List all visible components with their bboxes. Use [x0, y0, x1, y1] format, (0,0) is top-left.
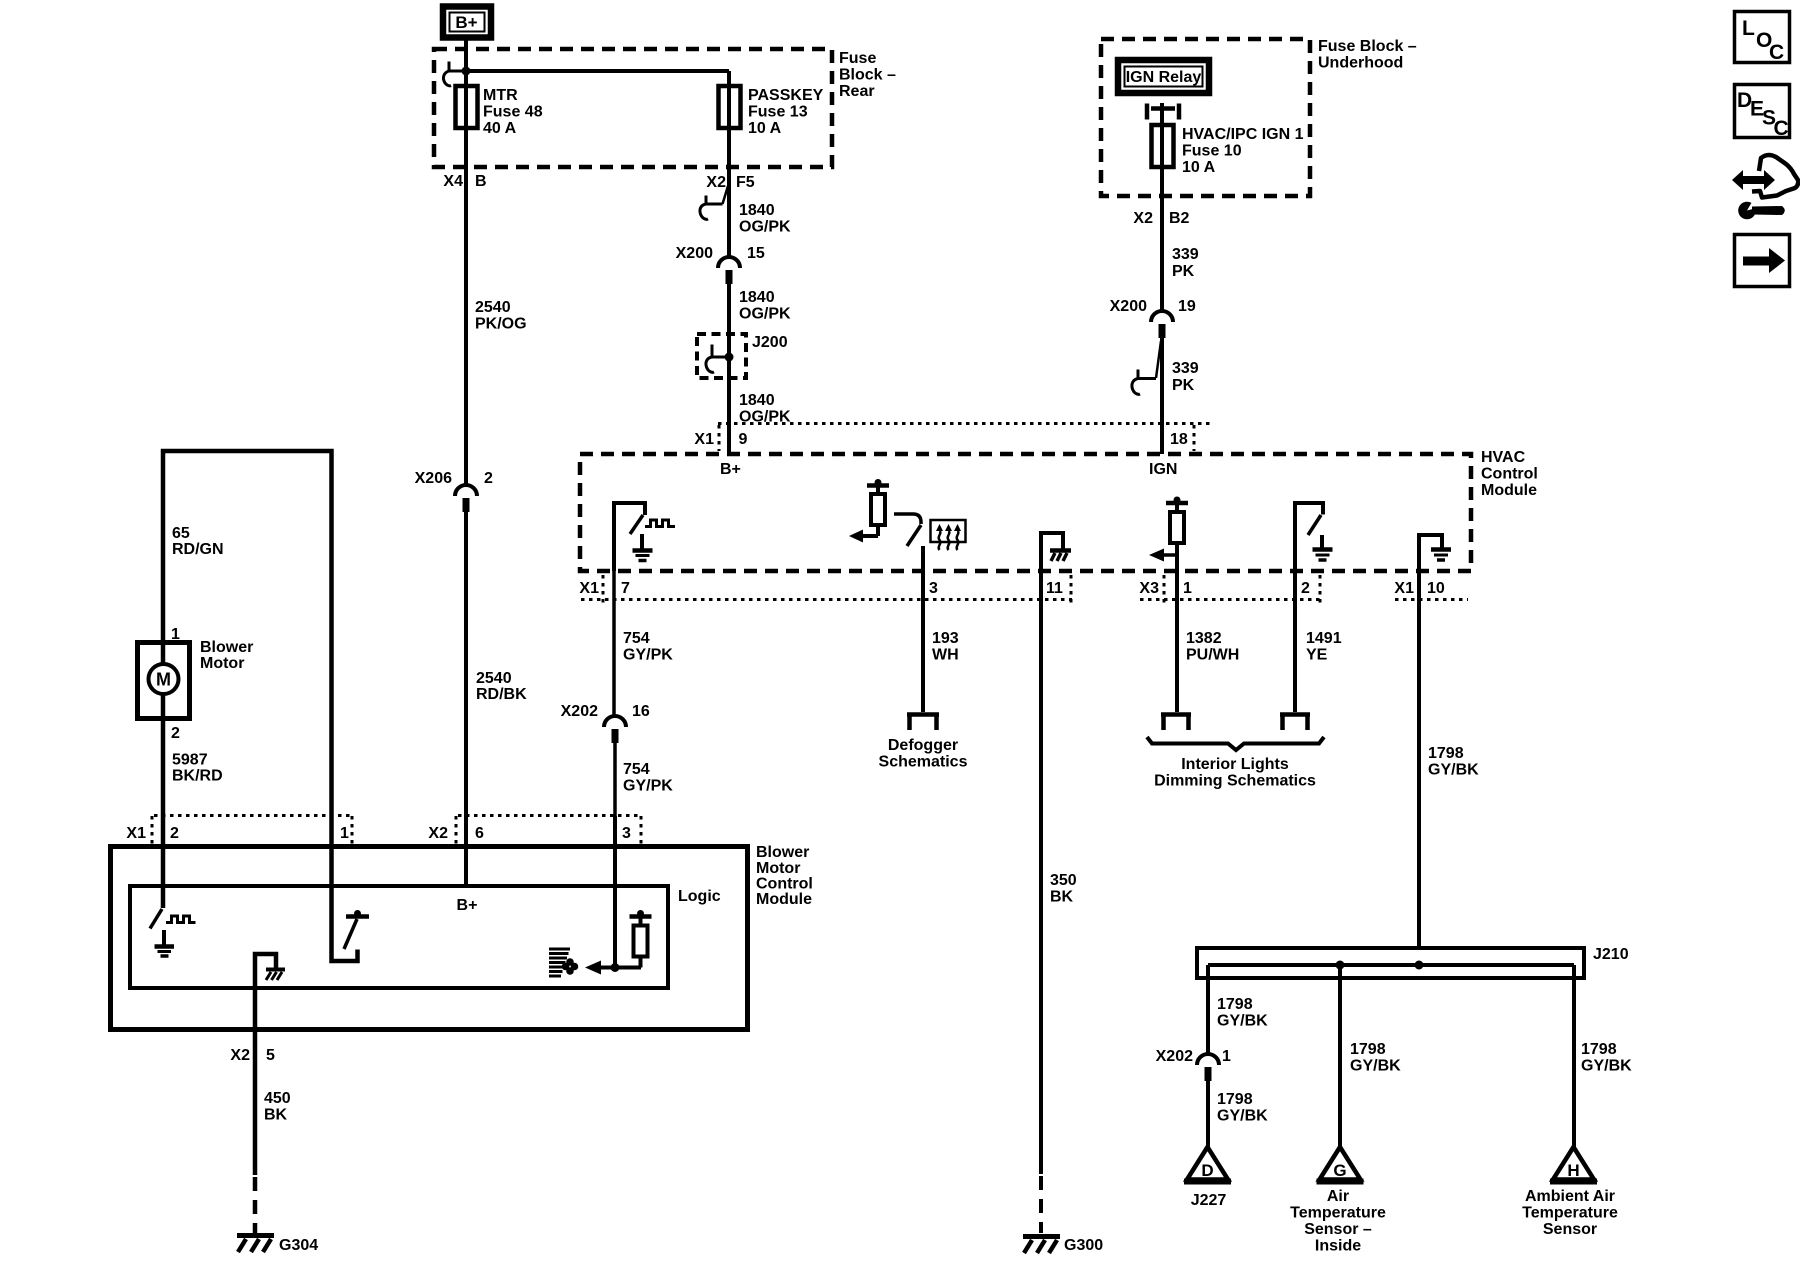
svg-text:L: L: [1742, 17, 1755, 40]
svg-text:RD/GN: RD/GN: [172, 541, 224, 558]
svg-text:754: 754: [623, 761, 650, 778]
svg-text:450: 450: [264, 1090, 291, 1107]
svg-text:1840: 1840: [739, 202, 775, 219]
svg-text:10 A: 10 A: [748, 120, 782, 137]
svg-text:19: 19: [1178, 298, 1196, 315]
svg-text:1: 1: [1183, 580, 1192, 597]
svg-text:OG/PK: OG/PK: [739, 306, 791, 323]
svg-text:5: 5: [266, 1047, 275, 1064]
svg-text:HVAC/IPC IGN 1: HVAC/IPC IGN 1: [1182, 126, 1304, 143]
svg-text:PASSKEY: PASSKEY: [748, 87, 824, 104]
svg-text:Module: Module: [1481, 482, 1537, 499]
svg-text:Fuse Block –: Fuse Block –: [1318, 38, 1417, 55]
svg-text:B+: B+: [455, 13, 477, 32]
svg-text:HVAC: HVAC: [1481, 449, 1526, 466]
svg-text:2: 2: [1301, 580, 1310, 597]
svg-text:X206: X206: [415, 470, 452, 487]
svg-text:Module: Module: [756, 891, 812, 908]
svg-text:10 A: 10 A: [1182, 159, 1216, 176]
svg-text:Defogger: Defogger: [888, 737, 958, 754]
svg-text:40 A: 40 A: [483, 120, 517, 137]
svg-text:J200: J200: [752, 334, 788, 351]
svg-text:X2: X2: [1133, 210, 1153, 227]
svg-text:339: 339: [1172, 246, 1199, 263]
svg-text:1798: 1798: [1428, 745, 1464, 762]
svg-text:1840: 1840: [739, 392, 775, 409]
svg-text:1: 1: [1222, 1048, 1231, 1065]
svg-text:B: B: [475, 173, 487, 190]
svg-text:GY/BK: GY/BK: [1350, 1058, 1401, 1075]
svg-text:X4: X4: [443, 173, 463, 190]
svg-text:Motor: Motor: [200, 655, 244, 672]
svg-text:X2: X2: [706, 174, 726, 191]
svg-text:GY/BK: GY/BK: [1428, 762, 1479, 779]
svg-text:Fuse 10: Fuse 10: [1182, 143, 1242, 160]
svg-text:X200: X200: [1110, 298, 1147, 315]
svg-text:9: 9: [739, 431, 748, 448]
svg-text:Temperature: Temperature: [1522, 1205, 1618, 1222]
svg-text:RD/BK: RD/BK: [476, 686, 527, 703]
svg-text:X2: X2: [428, 825, 448, 842]
svg-text:Sensor –: Sensor –: [1304, 1221, 1372, 1238]
svg-text:PK: PK: [1172, 263, 1195, 280]
svg-text:16: 16: [632, 703, 650, 720]
svg-text:IGN Relay: IGN Relay: [1126, 69, 1202, 86]
svg-text:6: 6: [475, 825, 484, 842]
svg-text:Schematics: Schematics: [879, 754, 968, 771]
svg-text:PK/OG: PK/OG: [475, 316, 527, 333]
svg-text:Ambient Air: Ambient Air: [1525, 1188, 1615, 1205]
svg-text:X3: X3: [1139, 580, 1159, 597]
svg-text:10: 10: [1427, 580, 1445, 597]
svg-text:Block –: Block –: [839, 67, 896, 84]
svg-text:Blower: Blower: [200, 639, 253, 656]
svg-text:C: C: [1774, 117, 1789, 140]
svg-text:GY/BK: GY/BK: [1217, 1013, 1268, 1030]
svg-text:65: 65: [172, 525, 190, 542]
svg-text:MTR: MTR: [483, 87, 518, 104]
svg-text:Fuse 48: Fuse 48: [483, 104, 543, 121]
svg-text:M: M: [156, 670, 171, 690]
svg-text:C: C: [1769, 41, 1784, 64]
svg-text:Fuse: Fuse: [839, 50, 876, 67]
svg-text:18: 18: [1170, 431, 1188, 448]
svg-text:Temperature: Temperature: [1290, 1205, 1386, 1222]
svg-text:G304: G304: [279, 1237, 318, 1254]
svg-text:F5: F5: [736, 174, 755, 191]
svg-text:OG/PK: OG/PK: [739, 409, 791, 426]
svg-text:X1: X1: [1394, 580, 1414, 597]
svg-text:2: 2: [171, 725, 180, 742]
svg-text:PU/WH: PU/WH: [1186, 647, 1239, 664]
svg-text:X1: X1: [126, 825, 146, 842]
svg-text:B+: B+: [457, 897, 478, 914]
svg-text:BK: BK: [1050, 889, 1074, 906]
svg-text:OG/PK: OG/PK: [739, 219, 791, 236]
svg-text:2: 2: [170, 825, 179, 842]
svg-text:2540: 2540: [476, 670, 512, 687]
svg-text:X1: X1: [579, 580, 599, 597]
svg-text:Sensor: Sensor: [1543, 1221, 1597, 1238]
svg-text:J227: J227: [1191, 1192, 1227, 1209]
svg-text:X1: X1: [694, 431, 714, 448]
svg-text:11: 11: [1046, 580, 1063, 597]
svg-text:B2: B2: [1169, 210, 1190, 227]
svg-text:GY/PK: GY/PK: [623, 647, 673, 664]
svg-text:Interior Lights: Interior Lights: [1181, 756, 1289, 773]
svg-text:15: 15: [747, 245, 765, 262]
svg-text:WH: WH: [932, 647, 959, 664]
svg-text:X202: X202: [561, 703, 598, 720]
svg-text:1798: 1798: [1581, 1041, 1617, 1058]
svg-text:Control: Control: [1481, 466, 1538, 483]
svg-text:D: D: [1201, 1161, 1213, 1180]
svg-text:1491: 1491: [1306, 630, 1342, 647]
svg-text:GY/BK: GY/BK: [1217, 1108, 1268, 1125]
svg-text:Underhood: Underhood: [1318, 55, 1403, 72]
svg-text:2: 2: [484, 470, 493, 487]
svg-text:Fuse 13: Fuse 13: [748, 104, 808, 121]
svg-text:1: 1: [340, 825, 349, 842]
svg-text:2540: 2540: [475, 299, 511, 316]
svg-text:1840: 1840: [739, 289, 775, 306]
svg-text:Inside: Inside: [1315, 1238, 1361, 1255]
svg-text:Air: Air: [1327, 1188, 1349, 1205]
svg-text:350: 350: [1050, 872, 1077, 889]
svg-text:Control: Control: [756, 876, 813, 893]
svg-text:BK: BK: [264, 1107, 288, 1124]
svg-text:H: H: [1567, 1161, 1579, 1180]
svg-text:G300: G300: [1064, 1237, 1103, 1254]
svg-text:5987: 5987: [172, 752, 208, 769]
svg-text:X200: X200: [676, 245, 713, 262]
svg-text:IGN: IGN: [1149, 461, 1177, 478]
svg-text:Dimming Schematics: Dimming Schematics: [1154, 773, 1316, 790]
svg-text:1798: 1798: [1217, 996, 1253, 1013]
svg-text:193: 193: [932, 630, 959, 647]
svg-text:X2: X2: [230, 1047, 250, 1064]
svg-text:G: G: [1333, 1161, 1346, 1180]
svg-text:Rear: Rear: [839, 83, 875, 100]
svg-text:1382: 1382: [1186, 630, 1222, 647]
svg-text:1798: 1798: [1350, 1041, 1386, 1058]
svg-text:GY/PK: GY/PK: [623, 778, 673, 795]
svg-text:3: 3: [622, 825, 631, 842]
svg-text:7: 7: [621, 580, 630, 597]
svg-text:1798: 1798: [1217, 1091, 1253, 1108]
svg-text:J210: J210: [1593, 946, 1629, 963]
svg-text:YE: YE: [1306, 647, 1328, 664]
svg-text:B+: B+: [720, 461, 741, 478]
svg-text:339: 339: [1172, 360, 1199, 377]
svg-text:X202: X202: [1156, 1048, 1193, 1065]
svg-text:GY/BK: GY/BK: [1581, 1058, 1632, 1075]
svg-text:754: 754: [623, 630, 650, 647]
svg-text:Blower: Blower: [756, 844, 809, 861]
svg-text:1: 1: [171, 626, 180, 643]
svg-text:Logic: Logic: [678, 888, 721, 905]
svg-text:BK/RD: BK/RD: [172, 768, 223, 785]
svg-text:3: 3: [929, 580, 938, 597]
svg-text:Motor: Motor: [756, 860, 800, 877]
svg-text:PK: PK: [1172, 377, 1195, 394]
